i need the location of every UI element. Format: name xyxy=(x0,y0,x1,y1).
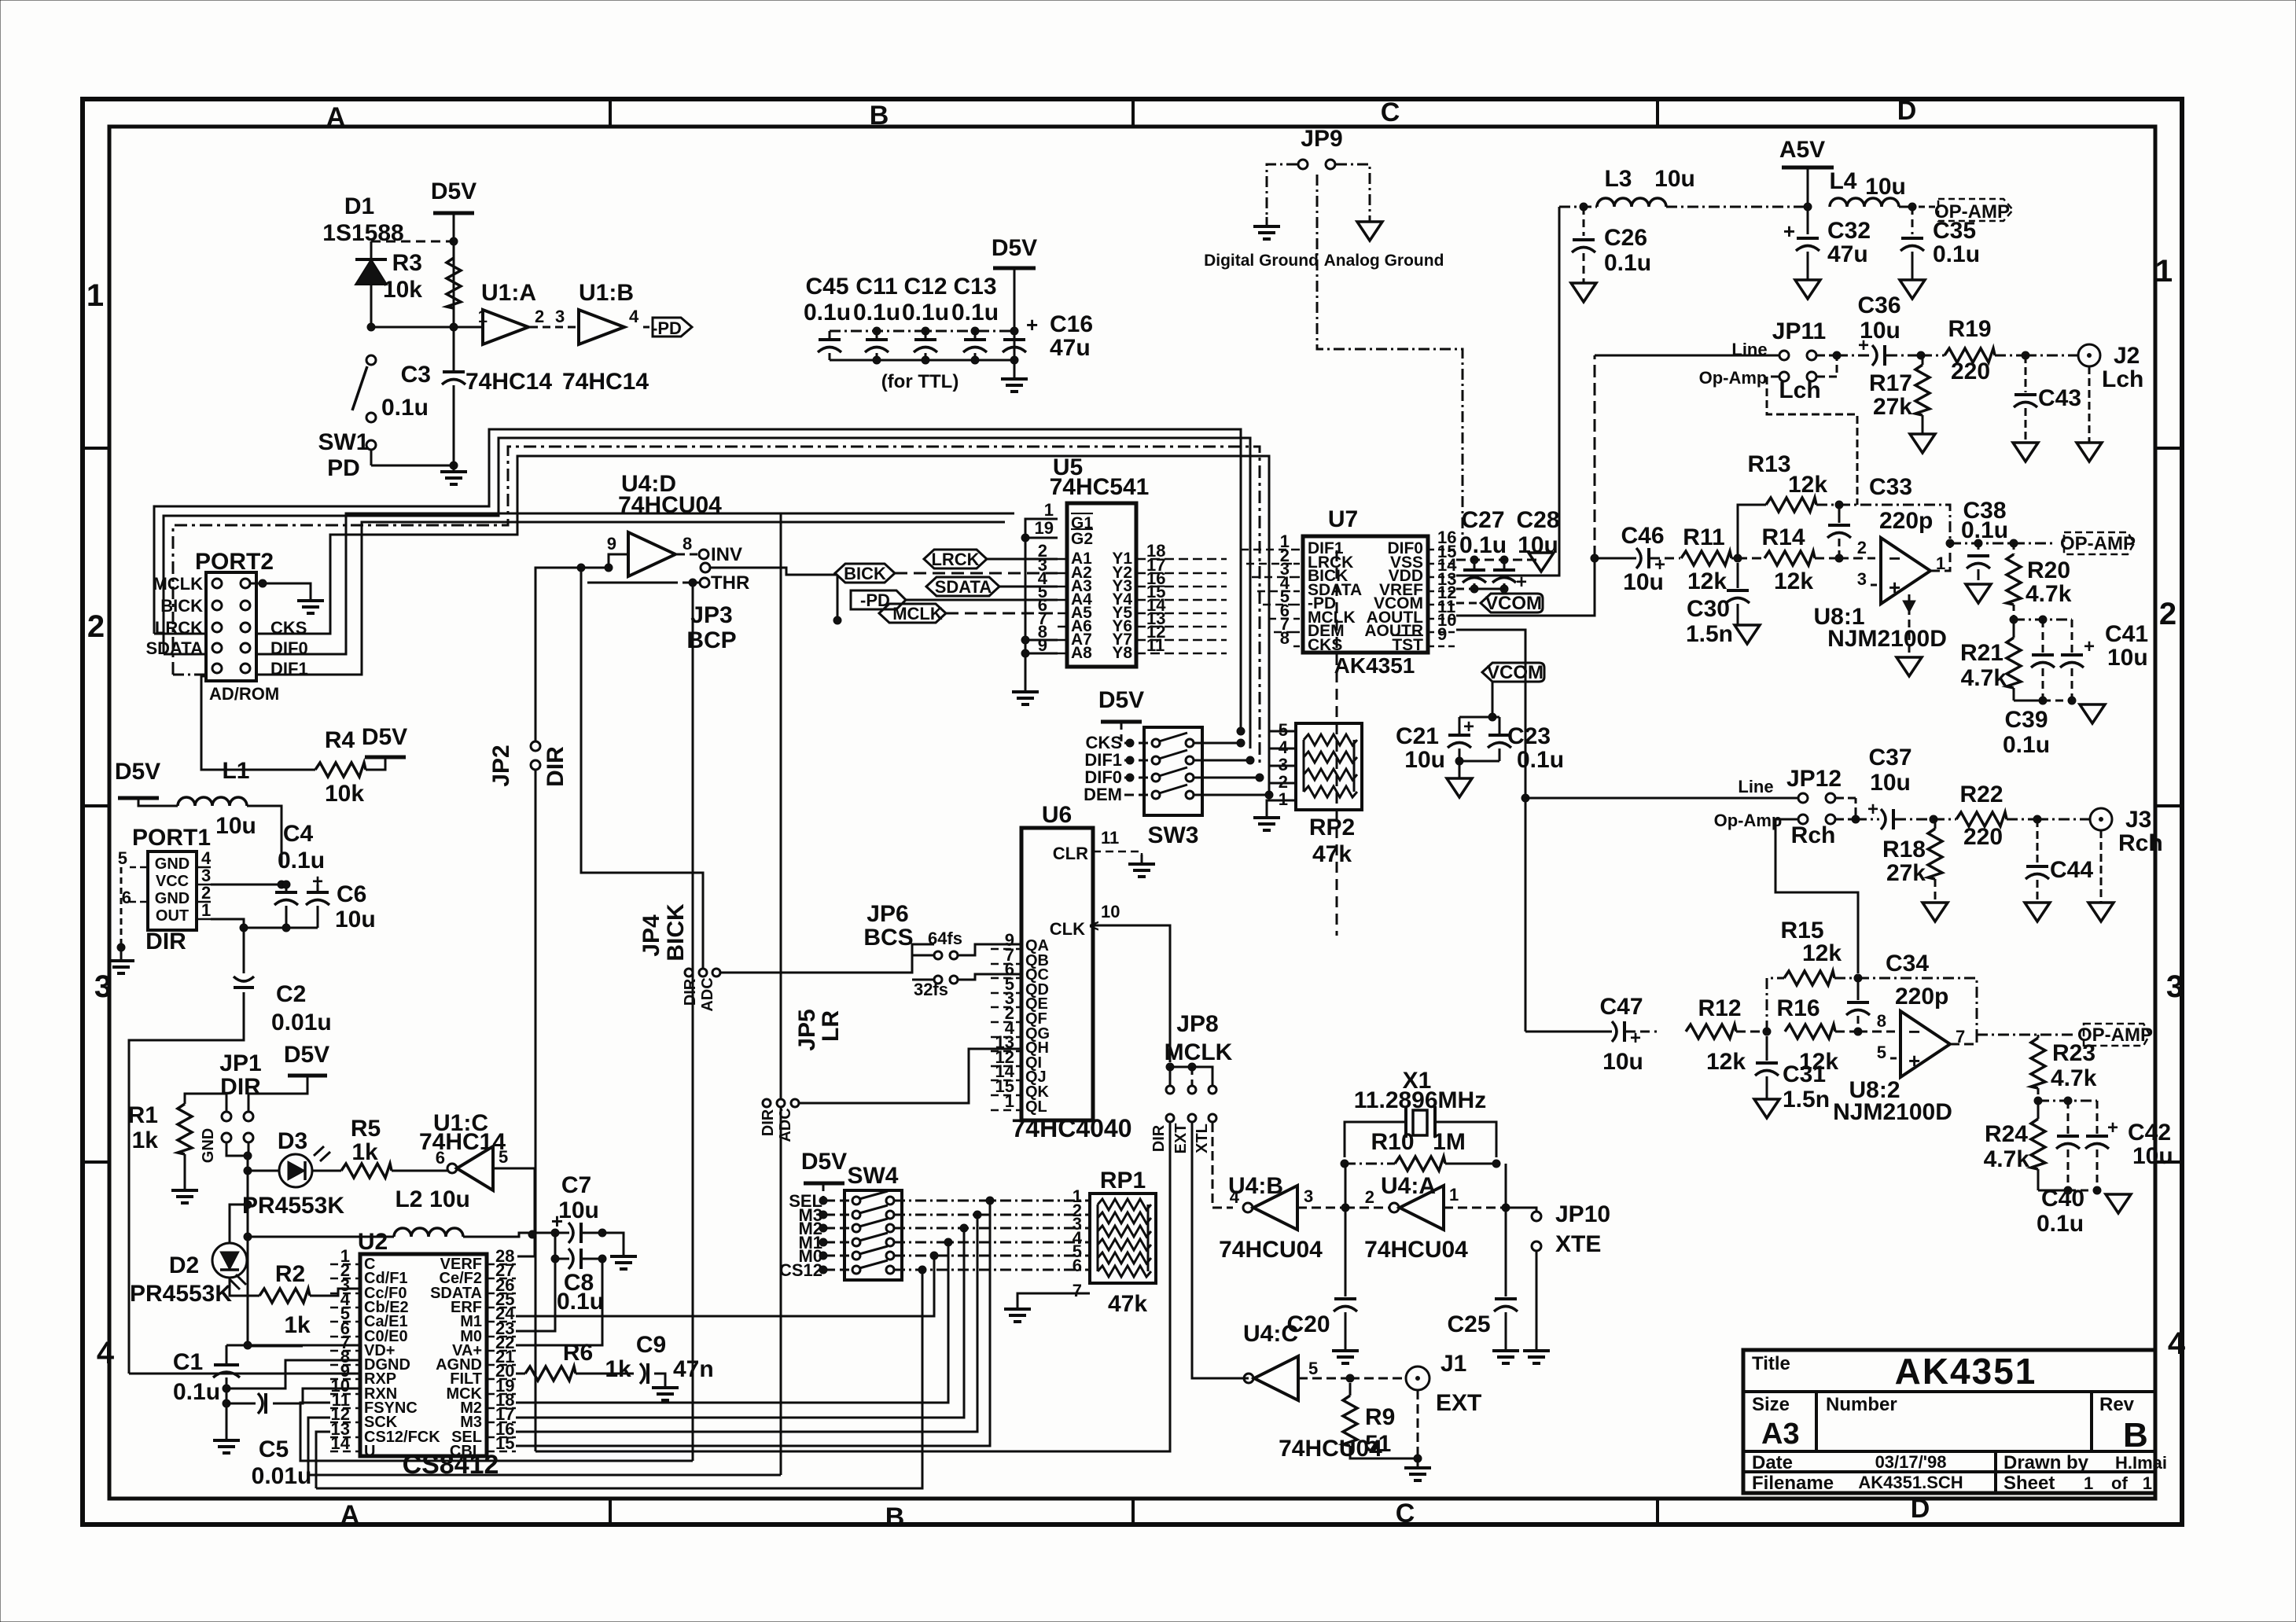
svg-text:1.5n: 1.5n xyxy=(1783,1087,1830,1113)
wire JP8 XTL down to U4:B xyxy=(1212,1123,1233,1208)
svg-text:U1:B: U1:B xyxy=(579,280,634,306)
svg-text:A5V: A5V xyxy=(1779,137,1825,163)
svg-text:9: 9 xyxy=(1038,635,1047,655)
svg-text:6: 6 xyxy=(122,888,131,907)
svg-text:TST: TST xyxy=(1392,636,1423,654)
svg-text:ADC: ADC xyxy=(699,977,716,1011)
svg-text:L4: L4 xyxy=(1829,168,1856,194)
svg-text:R2: R2 xyxy=(275,1261,305,1287)
digital ground symbol xyxy=(1253,217,1280,239)
connector PORT2 body xyxy=(206,572,256,681)
svg-text:Op-Amp: Op-Amp xyxy=(1699,368,1768,388)
wire JP12 right pins junction xyxy=(1836,797,1856,800)
wire JP1 node vertical xyxy=(247,1171,249,1237)
svg-text:OP-AMP: OP-AMP xyxy=(2060,533,2136,554)
diode D1 xyxy=(355,259,387,285)
svg-text:10u: 10u xyxy=(335,907,376,932)
svg-text:D3: D3 xyxy=(278,1128,307,1154)
svg-text:32fs: 32fs xyxy=(914,980,948,999)
svg-text:D5V: D5V xyxy=(362,724,407,750)
svg-text:RP2: RP2 xyxy=(1309,815,1355,840)
svg-text:C: C xyxy=(1396,1499,1415,1528)
svg-text:4: 4 xyxy=(2168,1326,2186,1361)
wire PORT2 left pin stubs xyxy=(154,633,206,635)
svg-text:CLK: CLK xyxy=(1050,919,1085,939)
resistor network RP2 body xyxy=(1296,723,1362,810)
svg-text:1: 1 xyxy=(2084,1473,2093,1493)
svg-text:C32: C32 xyxy=(1827,218,1871,244)
svg-text:4: 4 xyxy=(629,307,639,326)
svg-text:5: 5 xyxy=(118,848,127,868)
wire M1 M0 rows to right xyxy=(516,1242,948,1316)
svg-text:12k: 12k xyxy=(1788,472,1827,498)
wire JP12 op-amp loop xyxy=(1775,819,1858,973)
wire bus nest line 3 xyxy=(173,447,1260,766)
svg-text:4: 4 xyxy=(1230,1187,1240,1207)
wire RP1 pin7 to ground xyxy=(1017,1293,1090,1300)
svg-text:6: 6 xyxy=(436,1148,445,1168)
svg-text:10u: 10u xyxy=(2107,645,2148,671)
svg-text:C46: C46 xyxy=(1621,523,1664,549)
svg-text:10u: 10u xyxy=(1654,166,1695,192)
U7 internal dashed line xyxy=(1336,550,1338,936)
net flag LRCK at U5 xyxy=(924,550,987,568)
node pin1 xyxy=(371,326,483,329)
svg-text:1k: 1k xyxy=(284,1312,311,1338)
wire U8:1 output xyxy=(1930,543,1950,571)
svg-text:JP12: JP12 xyxy=(1786,766,1842,792)
wire U2 FSYNC loop xyxy=(300,1403,693,1461)
svg-text:10u: 10u xyxy=(1865,174,1906,200)
svg-text:DIR: DIR xyxy=(760,1109,777,1136)
svg-text:LRCK: LRCK xyxy=(931,550,979,569)
svg-text:of: of xyxy=(2111,1473,2128,1493)
svg-text:C36: C36 xyxy=(1857,292,1900,318)
svg-text:C27: C27 xyxy=(1461,507,1504,533)
wire VCOM to C21/C23 xyxy=(1459,682,1492,717)
svg-text:R17: R17 xyxy=(1869,370,1912,396)
resistor R9 xyxy=(1343,1396,1357,1446)
svg-text:LR: LR xyxy=(818,1010,844,1042)
svg-text:JP8: JP8 xyxy=(1176,1011,1218,1037)
wire R1 top to JP1 xyxy=(185,1094,226,1111)
svg-text:C35: C35 xyxy=(1933,218,1976,244)
svg-text:74HCU04: 74HCU04 xyxy=(618,492,722,518)
IC U2 CS8412 body xyxy=(360,1254,487,1456)
wire C2 to RXP loop xyxy=(129,992,244,1374)
svg-text:MCLK: MCLK xyxy=(892,604,943,623)
svg-text:BICK: BICK xyxy=(844,564,886,583)
svg-text:+: + xyxy=(1026,313,1038,337)
svg-text:2: 2 xyxy=(87,609,105,644)
wire JP8 MCLK from U6 CLK xyxy=(1168,1066,1170,1068)
analog ground below C32 xyxy=(1795,280,1820,299)
wire U7 left pin stubs to bus xyxy=(1241,549,1293,551)
svg-text:Size: Size xyxy=(1752,1394,1790,1415)
wire U4:A output node xyxy=(1444,1207,1506,1209)
svg-text:12k: 12k xyxy=(1706,1049,1746,1075)
svg-text:74HCU04: 74HCU04 xyxy=(1364,1237,1468,1263)
svg-text:0.01u: 0.01u xyxy=(252,1463,312,1489)
svg-text:R3: R3 xyxy=(392,250,422,276)
svg-text:INV: INV xyxy=(711,544,742,565)
svg-text:74HC541: 74HC541 xyxy=(1050,474,1150,500)
analog ground below C38 xyxy=(1966,584,1991,603)
svg-text:10u: 10u xyxy=(2132,1143,2173,1169)
wire JP8 EXT down to U4:C xyxy=(1192,1123,1249,1378)
wire DIR vertical joins SEL row xyxy=(517,1431,535,1433)
frame column tick marks xyxy=(609,99,612,127)
wire node to R10 left xyxy=(1345,1164,1347,1208)
svg-text:JP11: JP11 xyxy=(1772,318,1826,344)
wire AD/ROM to R4 to D5V xyxy=(201,676,315,770)
svg-text:C41: C41 xyxy=(2105,621,2148,647)
svg-text:B: B xyxy=(2123,1416,2148,1455)
svg-text:R24: R24 xyxy=(1985,1121,2028,1147)
wire PORT1 VCC to node xyxy=(211,884,281,886)
wire VREF row to VCOM flag xyxy=(1456,588,1474,590)
jumper JP10 XTE pin xyxy=(1532,1241,1541,1251)
svg-text:PR4553K: PR4553K xyxy=(242,1193,344,1219)
svg-text:10u: 10u xyxy=(1870,770,1911,796)
svg-text:Number: Number xyxy=(1826,1394,1897,1415)
svg-text:C30: C30 xyxy=(1687,596,1730,622)
ground at C7 xyxy=(610,1247,637,1269)
svg-text:C28: C28 xyxy=(1516,507,1559,533)
wire U8:1 plus input xyxy=(1871,584,1881,587)
wire U4:D input xyxy=(581,567,609,569)
svg-text:EXT: EXT xyxy=(1436,1390,1481,1416)
net flag OP-AMP Lch xyxy=(2064,532,2134,554)
svg-text:D1: D1 xyxy=(344,193,374,219)
analog ground Rch divider xyxy=(2106,1194,2131,1213)
resistor R24 xyxy=(2031,1119,2045,1169)
svg-text:03/17/'98: 03/17/'98 xyxy=(1875,1452,1947,1472)
net flag OP-AMP Rch xyxy=(2084,1024,2150,1046)
svg-text:AD/ROM: AD/ROM xyxy=(209,684,279,704)
svg-text:C21: C21 xyxy=(1396,723,1439,749)
svg-text:NJM2100D: NJM2100D xyxy=(1833,1099,1952,1125)
wire JP11 right pins junction xyxy=(1817,355,1837,357)
wire U1:C output to VERF xyxy=(493,1168,535,1256)
svg-text:−: − xyxy=(1908,1020,1920,1043)
frame row tick marks xyxy=(83,447,109,450)
svg-text:+: + xyxy=(1908,1049,1920,1072)
svg-text:(for TTL): (for TTL) xyxy=(881,371,959,392)
wire U4:A input xyxy=(1345,1207,1389,1209)
wire VSS row xyxy=(1456,559,1541,561)
svg-text:5: 5 xyxy=(1308,1359,1318,1378)
svg-text:J3: J3 xyxy=(2125,807,2151,833)
wire PORT2 DIF1 line xyxy=(256,522,1005,675)
border inner frame xyxy=(109,127,2155,1499)
svg-text:CS12: CS12 xyxy=(779,1260,822,1280)
svg-text:D5V: D5V xyxy=(1098,687,1144,713)
svg-text:4.7k: 4.7k xyxy=(1984,1146,2030,1172)
jumper JP3 middle pin xyxy=(701,563,710,572)
svg-text:0.1u: 0.1u xyxy=(902,300,949,326)
analog ground below C41 xyxy=(2080,704,2105,723)
jumper JP3 INV pin xyxy=(677,554,698,556)
wire JP8 DIR down xyxy=(535,1123,1170,1451)
analog ground below C26 xyxy=(1571,283,1596,302)
analog ground below C35 xyxy=(1900,280,1925,299)
svg-text:5: 5 xyxy=(1877,1043,1886,1062)
capacitor C20 xyxy=(1345,1208,1347,1296)
inverter U4:B xyxy=(1253,1186,1297,1230)
svg-text:DIR: DIR xyxy=(682,978,699,1006)
jumper JP4 pins xyxy=(685,969,693,977)
ground below C25 xyxy=(1492,1341,1519,1363)
wire U8:2 output xyxy=(1950,1035,1977,1044)
svg-text:G2: G2 xyxy=(1071,530,1093,548)
svg-text:5: 5 xyxy=(499,1147,508,1167)
wire U2 CS12 loop xyxy=(316,1432,330,1488)
wire MCLK net from JP8 up xyxy=(1191,1067,1193,1085)
svg-text:R23: R23 xyxy=(2052,1040,2095,1066)
analog ground below C21 xyxy=(1447,778,1472,797)
svg-text:DIR: DIR xyxy=(1150,1124,1168,1152)
svg-text:PD: PD xyxy=(327,455,360,481)
svg-text:JP9: JP9 xyxy=(1301,126,1342,152)
svg-text:47k: 47k xyxy=(1312,841,1352,867)
wire JP11 op-amp loop xyxy=(1767,377,1857,505)
net flag BICK at U5 xyxy=(835,564,895,583)
svg-text:JP2: JP2 xyxy=(488,745,514,786)
jumper JP6 pins 32fs xyxy=(934,976,942,984)
svg-text:0.1u: 0.1u xyxy=(1459,532,1507,558)
svg-text:C45: C45 xyxy=(805,274,848,300)
capacitor C31 xyxy=(1766,1036,1768,1061)
svg-text:Line: Line xyxy=(1738,777,1773,796)
wire U4:C input from J1 xyxy=(1298,1377,1350,1380)
ground at RP1 xyxy=(1004,1300,1031,1322)
svg-text:JP1: JP1 xyxy=(219,1050,261,1076)
svg-text:10: 10 xyxy=(1101,902,1120,921)
svg-text:AK4351: AK4351 xyxy=(1895,1351,2037,1392)
svg-text:JP4: JP4 xyxy=(638,914,664,957)
svg-text:1: 1 xyxy=(2155,254,2173,289)
svg-text:JP5: JP5 xyxy=(794,1009,820,1050)
svg-text:220: 220 xyxy=(1963,824,2003,850)
wire L3 row xyxy=(1559,206,1597,208)
svg-text:0.1u: 0.1u xyxy=(1517,747,1564,773)
svg-text:XTE: XTE xyxy=(1555,1231,1601,1257)
svg-text:DEM: DEM xyxy=(1084,785,1122,804)
svg-text:MCLK: MCLK xyxy=(153,574,203,594)
net flag OP-AMP row1 xyxy=(1938,199,2013,221)
svg-text:U: U xyxy=(364,1443,375,1460)
svg-text:JP6: JP6 xyxy=(867,901,908,927)
IC U6 74HC4040 body xyxy=(1021,828,1093,1120)
svg-text:Lch: Lch xyxy=(1779,377,1820,403)
jumper JP10 xyxy=(1506,1208,1536,1212)
svg-text:74HCU04: 74HCU04 xyxy=(1219,1237,1323,1263)
svg-text:DIR: DIR xyxy=(145,929,186,954)
svg-text:8: 8 xyxy=(683,534,692,554)
wire JP9 right pin to analog ground xyxy=(1336,164,1370,222)
svg-text:D5V: D5V xyxy=(992,235,1037,261)
svg-text:1.5n: 1.5n xyxy=(1686,621,1733,647)
wire cap bank bottom bus xyxy=(830,359,1014,362)
svg-text:19: 19 xyxy=(1035,518,1054,538)
wire J3 to ground xyxy=(2100,830,2103,903)
wire JP5 middle pin up xyxy=(780,513,782,1098)
wire JP2 down xyxy=(535,770,537,1451)
resistor R20 xyxy=(2007,554,2021,605)
svg-text:L1: L1 xyxy=(222,758,249,784)
ground at U6 CLR xyxy=(1128,855,1155,877)
svg-text:A3: A3 xyxy=(1761,1418,1800,1451)
svg-text:0.1u: 0.1u xyxy=(2037,1211,2084,1237)
svg-text:47u: 47u xyxy=(1827,241,1868,267)
svg-text:BICK: BICK xyxy=(160,596,203,616)
svg-text:SDATA: SDATA xyxy=(935,577,992,597)
svg-text:1: 1 xyxy=(1044,500,1054,520)
svg-text:Rch: Rch xyxy=(2118,830,2163,856)
svg-text:R5: R5 xyxy=(351,1116,381,1142)
svg-text:D5V: D5V xyxy=(431,178,476,204)
wire SW1 to C3 bottom xyxy=(371,465,454,467)
svg-text:2: 2 xyxy=(2159,597,2176,631)
svg-text:U1:A: U1:A xyxy=(481,280,536,306)
wire JP9 left pin to digital ground xyxy=(1267,164,1297,217)
svg-text:Op-Amp: Op-Amp xyxy=(1714,811,1783,830)
svg-text:BCP: BCP xyxy=(686,627,736,653)
svg-text:R22: R22 xyxy=(1959,782,2003,807)
ground below U5 xyxy=(1012,682,1039,704)
svg-text:C6: C6 xyxy=(337,881,366,907)
svg-text:Date: Date xyxy=(1752,1452,1793,1473)
capacitor C30 xyxy=(1737,563,1739,588)
svg-text:R13: R13 xyxy=(1747,451,1790,477)
svg-text:R9: R9 xyxy=(1365,1404,1395,1430)
switch SW1 xyxy=(366,355,376,365)
svg-text:SW4: SW4 xyxy=(847,1163,898,1189)
wire R5 to U1:C xyxy=(392,1170,447,1172)
jumper JP6 pins 64fs xyxy=(934,951,942,959)
svg-text:C25: C25 xyxy=(1447,1311,1490,1337)
IC U5 74HC541 body xyxy=(1067,503,1136,667)
svg-text:51: 51 xyxy=(1365,1431,1391,1457)
analog ground below J3 xyxy=(2088,903,2114,921)
svg-text:47k: 47k xyxy=(1108,1291,1147,1317)
ground below XTE xyxy=(1523,1341,1550,1363)
wire U6 CLK to JP8 xyxy=(1168,1066,1192,1068)
svg-text:10k: 10k xyxy=(325,781,364,807)
svg-text:L2: L2 xyxy=(395,1186,422,1212)
wire RXP row xyxy=(129,1373,360,1375)
svg-text:4.7k: 4.7k xyxy=(1961,665,2007,691)
svg-text:R6: R6 xyxy=(563,1340,593,1366)
wire D5V to JP1 xyxy=(248,1076,307,1111)
svg-text:AK4351.SCH: AK4351.SCH xyxy=(1858,1473,1963,1492)
svg-text:Analog Ground: Analog Ground xyxy=(1324,252,1444,270)
wire VD+ node row xyxy=(226,1344,360,1347)
svg-text:GND: GND xyxy=(200,1128,217,1163)
svg-text:2: 2 xyxy=(1857,538,1867,557)
svg-text:74HC14: 74HC14 xyxy=(562,369,649,395)
svg-text:1: 1 xyxy=(1449,1185,1459,1205)
svg-text:C11: C11 xyxy=(855,274,897,300)
capacitor C16 polarized xyxy=(1003,340,1026,352)
wire C8 row xyxy=(555,1233,569,1259)
svg-text:4: 4 xyxy=(97,1336,115,1370)
ground below C16 xyxy=(1014,360,1016,371)
analog ground below C43 xyxy=(2013,443,2038,462)
wire D2 top to node xyxy=(230,1205,248,1243)
svg-text:0.1u: 0.1u xyxy=(1604,250,1651,276)
wire C7 row xyxy=(555,1232,569,1234)
net flag VCOM at U7 xyxy=(1456,602,1478,605)
wire SW3 to bus verticals xyxy=(1194,742,1241,745)
svg-text:220p: 220p xyxy=(1895,984,1948,1010)
wire JP3 nets vertical xyxy=(581,568,703,969)
svg-text:C: C xyxy=(1381,97,1400,127)
svg-text:10u: 10u xyxy=(1623,569,1664,595)
wire RP2 pins xyxy=(1269,730,1296,733)
svg-text:CLR: CLR xyxy=(1053,844,1088,863)
wire R13 feedback loop xyxy=(1738,505,1766,558)
wire R15 feedback loop xyxy=(1767,978,1784,1032)
ground at C9 xyxy=(654,1374,665,1378)
svg-text:11: 11 xyxy=(1101,828,1119,848)
wire OUT down to C2 xyxy=(243,928,245,973)
svg-text:0.1u: 0.1u xyxy=(853,300,900,326)
wire JP5 right pin to U6 xyxy=(799,1049,1021,1103)
wire JP8 top bracket xyxy=(1170,1067,1212,1085)
wire C21 C23 bottom xyxy=(1459,760,1499,763)
svg-text:0.1u: 0.1u xyxy=(381,395,429,421)
net flag MCLK at U5 xyxy=(879,604,946,623)
svg-text:R14: R14 xyxy=(1761,524,1805,550)
inverter U4:D xyxy=(628,532,675,576)
svg-text:0.1u: 0.1u xyxy=(1933,241,1980,267)
jumper JP3 THR pin xyxy=(700,578,709,587)
svg-text:10u: 10u xyxy=(1404,747,1445,773)
svg-text:0.1u: 0.1u xyxy=(173,1379,220,1405)
svg-text:1: 1 xyxy=(478,307,488,326)
svg-text:7: 7 xyxy=(1073,1281,1082,1300)
capacitor C41 polarized xyxy=(2071,620,2073,653)
wire JP1 bottom pins junction xyxy=(226,1142,248,1171)
svg-text:H.Imai: H.Imai xyxy=(2115,1453,2167,1473)
analog ground below C44 xyxy=(2025,903,2050,921)
svg-text:C16: C16 xyxy=(1050,311,1093,337)
svg-text:Sheet: Sheet xyxy=(2003,1473,2055,1494)
svg-text:74HC4040: 74HC4040 xyxy=(1012,1114,1132,1142)
svg-text:6: 6 xyxy=(1073,1256,1082,1275)
svg-text:3: 3 xyxy=(555,307,565,326)
svg-text:8: 8 xyxy=(1877,1011,1886,1031)
analog ground below C30 xyxy=(1735,625,1760,644)
net flag -PD xyxy=(643,326,651,329)
svg-text:QL: QL xyxy=(1025,1098,1047,1116)
wire L1 to C4 node xyxy=(247,806,281,867)
svg-text:R20: R20 xyxy=(2027,557,2070,583)
wire JP11 to C36 xyxy=(1837,355,1871,357)
capacitor C35 xyxy=(1911,207,1914,234)
svg-text:27k: 27k xyxy=(1873,394,1912,420)
svg-text:Y8: Y8 xyxy=(1112,644,1132,662)
capacitor C42 polarized xyxy=(2096,1101,2099,1134)
wire Rch divider bottom nodes xyxy=(2064,1186,2072,1194)
svg-text:C3: C3 xyxy=(401,362,431,388)
wire U5 lower pins bracket xyxy=(1025,639,1058,642)
wire VDD feed vertical xyxy=(1456,207,1559,576)
svg-text:10u: 10u xyxy=(429,1186,470,1212)
capacitor C39 xyxy=(2042,620,2044,653)
